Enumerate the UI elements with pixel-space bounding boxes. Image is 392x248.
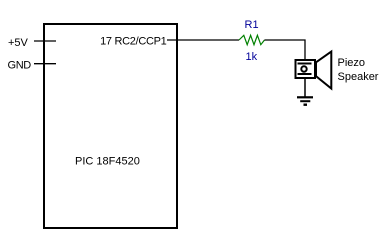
wire +5V pin stub [34, 40, 56, 42]
svg-text:+5V: +5V [8, 37, 29, 49]
speaker piezo disc [301, 66, 306, 71]
svg-text:PIC 18F4520: PIC 18F4520 [75, 155, 140, 167]
svg-text:GND: GND [8, 60, 32, 72]
svg-text:R1: R1 [245, 19, 259, 31]
speaker horn cone [316, 52, 331, 89]
svg-text:1k: 1k [246, 51, 258, 63]
ground symbol [297, 97, 313, 104]
resistor R1 zigzag [239, 35, 265, 44]
label Piezo Speaker [338, 57, 379, 83]
IC U1 PIC 18F4520 body [44, 24, 177, 228]
speaker bottom electrode bar [298, 73, 312, 75]
svg-text:17 RC2/CCP1: 17 RC2/CCP1 [100, 36, 167, 48]
wire pin 17 to resistor [167, 39, 239, 41]
wire GND pin stub [34, 63, 56, 65]
svg-text:Piezo: Piezo [338, 57, 366, 69]
speaker top electrode bar [298, 63, 312, 65]
piezo speaker LS1 body box [296, 60, 316, 78]
wire resistor to speaker corner [265, 40, 306, 60]
svg-text:Speaker: Speaker [338, 71, 379, 83]
wire speaker to ground [304, 79, 306, 97]
